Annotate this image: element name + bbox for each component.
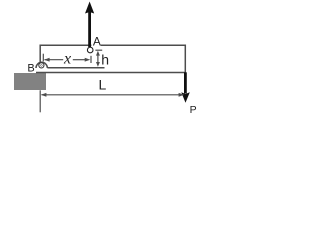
svg-text:B: B [27, 63, 34, 75]
svg-text:x: x [63, 51, 71, 68]
svg-text:P: P [190, 104, 197, 116]
svg-text:A: A [93, 35, 101, 49]
svg-text:L: L [99, 77, 107, 93]
svg-text:h: h [101, 52, 109, 68]
